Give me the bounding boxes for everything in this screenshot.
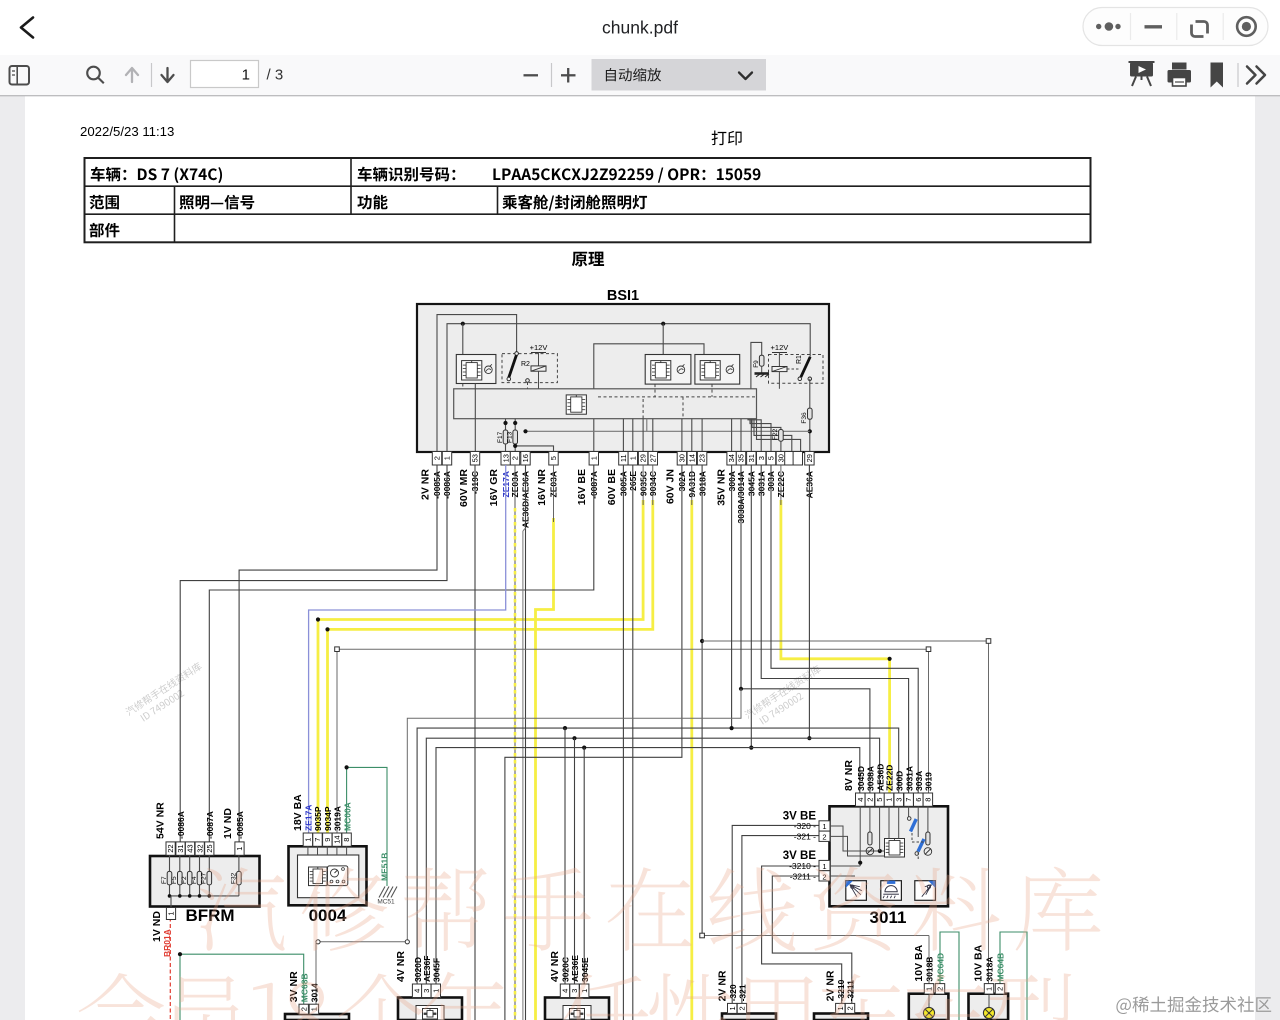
0004 title <box>309 906 347 925</box>
ic U2 <box>566 395 586 414</box>
svg-text:43: 43 <box>186 844 195 852</box>
3011 wiring <box>830 806 928 876</box>
BSI1 pin 1 <box>589 452 598 466</box>
bus right fan <box>748 419 801 452</box>
3011 pin 6 <box>914 793 924 806</box>
svg-text:2V NR: 2V NR <box>420 469 432 500</box>
net label 9035C <box>638 471 648 496</box>
svg-text:3018B: 3018B <box>925 957 935 982</box>
BFRM pin 43 <box>185 842 194 855</box>
connector 3V NR 3014 <box>285 1014 349 1020</box>
wire -3211 <box>772 876 852 1003</box>
wire MC64B green <box>1000 932 1027 1020</box>
bus-to-pin wires <box>475 384 751 452</box>
label -0085A <box>235 811 245 839</box>
connector 0004 <box>289 846 367 905</box>
BSI1 pin 14 <box>687 452 696 466</box>
wire 3045 run <box>436 465 860 984</box>
wire ZE03A core <box>514 465 516 1020</box>
svg-text:2022/5/23 11:13: 2022/5/23 11:13 <box>80 124 174 139</box>
BSI1 pin 29 <box>638 452 647 466</box>
watermark diagonal <box>124 661 209 727</box>
chassis ground in BSI <box>755 374 770 378</box>
label 300D <box>894 771 904 791</box>
svg-text:23: 23 <box>698 454 707 462</box>
fuse F27 <box>201 855 212 896</box>
svg-text:2V NR: 2V NR <box>825 970 837 1001</box>
label 3V NR <box>288 971 300 1002</box>
fuse F2 <box>181 855 192 896</box>
net label 300A <box>727 471 737 491</box>
svg-text:16V NR: 16V NR <box>536 469 548 506</box>
BSI1 pin nc <box>785 452 794 466</box>
label ZE22D <box>885 765 895 791</box>
svg-text:1: 1 <box>242 67 250 84</box>
svg-text:F4: F4 <box>191 876 198 884</box>
connector 10V BA b <box>969 994 1009 1020</box>
svg-text:18V BA: 18V BA <box>292 794 304 831</box>
BSI1 pin 3 <box>757 452 766 466</box>
0004 pin 14 <box>332 833 341 855</box>
connector 2V NR a <box>722 1014 776 1020</box>
svg-text:14: 14 <box>333 835 342 843</box>
BFRM title <box>185 906 234 925</box>
原理 title <box>572 252 604 267</box>
connector 4V NR b <box>545 998 609 1020</box>
BSI connector group labels <box>420 469 728 507</box>
net label 3018A <box>697 471 707 496</box>
svg-text:2: 2 <box>738 1006 747 1010</box>
BSI1 pin 1 <box>628 452 637 466</box>
wire AE36 internal <box>523 419 809 434</box>
wire BSI top bus to R1 <box>447 322 810 452</box>
3011 left pin 2 <box>794 831 830 841</box>
svg-text:MC51: MC51 <box>377 899 395 906</box>
fuse F13 <box>503 419 517 452</box>
net label ZE22C <box>776 471 786 497</box>
label 10V BA <box>973 944 985 981</box>
0004 pin 1 <box>303 833 312 855</box>
BSI1 pin 16 <box>521 452 530 466</box>
3011 pin 1 <box>884 793 894 806</box>
svg-text:F17: F17 <box>497 431 504 443</box>
label -321 <box>738 984 748 1001</box>
wire -0086A <box>180 465 447 842</box>
net label AE36D/AE36A <box>521 471 531 528</box>
svg-text:AE36E: AE36E <box>570 955 580 982</box>
net label AE36A <box>805 471 815 498</box>
svg-text:60V JN: 60V JN <box>665 469 677 504</box>
svg-text:35: 35 <box>737 454 746 462</box>
打印 <box>85 158 1091 242</box>
10V BA b pin 1 <box>984 984 993 995</box>
op-amp U4 <box>695 355 740 385</box>
BSI1 pin 5 <box>549 452 558 466</box>
svg-text:chunk.pdf: chunk.pdf <box>602 18 678 38</box>
svg-text:3019A: 3019A <box>333 806 343 831</box>
svg-text:F27: F27 <box>201 872 208 884</box>
BSI1 pin 30 <box>677 452 686 466</box>
label 3018B <box>925 957 935 982</box>
svg-text:16V BE: 16V BE <box>576 469 588 505</box>
BSI1 pin 23 <box>697 452 706 466</box>
svg-text:22: 22 <box>166 844 175 852</box>
10V BA a pin 1 <box>924 984 933 995</box>
svg-text:31: 31 <box>176 844 185 852</box>
BFRM pin 25 <box>205 842 214 855</box>
2V NR b pin 2 <box>845 1003 854 1013</box>
svg-text:2: 2 <box>822 832 826 841</box>
svg-text:30: 30 <box>678 454 687 462</box>
svg-text:-3211 -: -3211 - <box>790 871 816 881</box>
wire MC68B green <box>178 952 304 1020</box>
4V NR a pin 4 <box>412 984 421 998</box>
ic 0004 <box>309 867 328 886</box>
resistor 3011 a <box>866 832 874 855</box>
4V NR b ic <box>570 1009 585 1020</box>
+12V supply R2 <box>530 343 548 389</box>
fuse F5 <box>171 855 182 896</box>
svg-text:3019: 3019 <box>924 772 934 791</box>
svg-text:16V GR: 16V GR <box>488 469 500 507</box>
watermark row2 <box>79 972 1073 1020</box>
table row3 <box>90 223 120 238</box>
svg-text:3045F: 3045F <box>432 958 442 982</box>
wire 303A <box>771 465 918 793</box>
net label 3045A <box>747 471 757 496</box>
svg-text:34: 34 <box>727 454 736 462</box>
svg-text:14: 14 <box>687 454 696 462</box>
svg-text:1: 1 <box>628 456 637 460</box>
label 3031A <box>904 766 914 791</box>
label 2V NR <box>717 970 729 1001</box>
lamp 10V BA a <box>923 994 934 1020</box>
connector 2V NR b <box>814 1014 868 1020</box>
BFRM pin 32 <box>195 842 204 855</box>
4V NR b pin 4 <box>560 984 569 998</box>
svg-text:16: 16 <box>521 454 530 462</box>
net label -319C <box>470 471 480 494</box>
3011 pin 4 <box>856 793 866 806</box>
svg-text:1: 1 <box>985 987 994 991</box>
4V NR b pin 1 <box>580 984 589 998</box>
label 10V BA <box>913 944 925 981</box>
label 3045E <box>580 957 590 982</box>
svg-text:3: 3 <box>757 456 766 460</box>
BSI1 pin 5 <box>766 452 775 466</box>
wire 3031A <box>761 465 908 793</box>
wire MC00A/ME51B green <box>345 765 388 886</box>
label AE36F <box>422 956 432 982</box>
wire 9035P core <box>316 465 643 622</box>
svg-text:-321 -: -321 - <box>794 831 816 841</box>
svg-text:3011: 3011 <box>870 908 907 927</box>
label 9035P <box>313 806 323 831</box>
svg-text:1: 1 <box>167 911 176 915</box>
BSI1 pin 2 <box>432 452 441 466</box>
zoom select label 自动缩放 <box>606 68 661 81</box>
wire -320 <box>732 825 830 1003</box>
label BR01A <box>162 929 172 957</box>
wire ZE03A dotted highlight <box>514 508 517 1020</box>
wire 3014 link <box>316 940 410 1005</box>
svg-text:MC00A: MC00A <box>342 802 352 831</box>
0004 pin 8 <box>342 833 351 855</box>
wire 3019A link <box>335 647 931 833</box>
svg-text:-0087A: -0087A <box>205 811 215 839</box>
label 3V BE lower <box>783 850 817 862</box>
svg-text:3: 3 <box>570 989 579 993</box>
svg-text:R1: R1 <box>796 355 803 364</box>
4V NR a pin 3 <box>422 984 431 998</box>
lamp icon left <box>846 881 867 901</box>
label MC00A <box>342 802 352 831</box>
BSI1 pin 27 <box>648 452 657 466</box>
svg-text:31: 31 <box>747 454 756 462</box>
svg-text:F5: F5 <box>171 876 178 884</box>
svg-text:4V NR: 4V NR <box>395 951 407 982</box>
svg-text:3045D: 3045D <box>856 766 866 791</box>
svg-text:7: 7 <box>904 798 913 802</box>
dashed link R2 <box>463 382 528 419</box>
relay R1 <box>769 343 824 389</box>
switch 3011 s1 blue <box>907 817 916 842</box>
label 4V NR <box>395 951 407 982</box>
net label 9A31D <box>687 471 697 497</box>
fuse F4 <box>191 855 202 896</box>
svg-text:MC68B: MC68B <box>299 973 309 1002</box>
net label 303A <box>766 471 776 491</box>
gauge module 0004 <box>328 866 348 886</box>
wire 9035C/9035P highlight <box>318 500 643 833</box>
svg-text:-0085A: -0085A <box>235 811 245 839</box>
svg-text:2: 2 <box>433 456 442 460</box>
table row2 <box>90 195 647 211</box>
label 3018A <box>985 957 995 982</box>
wire 3005A <box>622 465 624 1020</box>
BSI1 pin 29 <box>805 452 814 466</box>
BFRM pin 22 <box>166 842 175 855</box>
wire ZE03A internal <box>513 444 553 452</box>
svg-text:3031A: 3031A <box>904 766 914 791</box>
net label 9034C <box>648 471 658 496</box>
3011 left pin 2b <box>790 871 830 882</box>
svg-text:3018A: 3018A <box>985 957 995 982</box>
label 1V ND top <box>222 808 234 839</box>
BSI1 pin 13 <box>501 452 510 466</box>
fuse F36 <box>801 379 812 452</box>
wire 3018A branch right <box>702 639 991 984</box>
svg-text:303A: 303A <box>914 771 924 791</box>
svg-text:60V BE: 60V BE <box>606 469 618 505</box>
wire ZE03A 16VNR highlight <box>536 518 554 1020</box>
BSI1 pin 2 <box>510 452 519 466</box>
svg-text:1: 1 <box>728 1006 737 1010</box>
label -320 <box>728 984 738 1001</box>
connector BFRM <box>150 856 260 907</box>
label ME51B <box>380 853 390 881</box>
svg-text:3: 3 <box>894 798 903 802</box>
fuse F9 <box>751 342 764 388</box>
connector 10V BA a <box>909 994 949 1020</box>
svg-text:2: 2 <box>866 798 875 802</box>
svg-text:3020C: 3020C <box>561 957 571 982</box>
net label -0086A <box>442 471 452 499</box>
wire -319C <box>474 465 476 1020</box>
svg-text:1: 1 <box>822 822 826 831</box>
svg-text:1V ND: 1V ND <box>222 808 234 839</box>
wire BSI top-left to R2 <box>437 315 517 452</box>
svg-text:F13: F13 <box>507 431 514 443</box>
svg-text:ZE17A: ZE17A <box>304 805 314 831</box>
svg-text:-0086A: -0086A <box>176 811 186 839</box>
svg-text:1: 1 <box>443 456 452 460</box>
2V NR b pin 1 <box>836 1003 845 1013</box>
svg-text:-3210 -: -3210 - <box>789 861 816 871</box>
label 54V NR <box>155 802 167 839</box>
2V NR a pin 2 <box>737 1003 746 1013</box>
svg-text:9035P: 9035P <box>313 806 323 831</box>
BSI1 title <box>607 288 639 304</box>
4V NR b inner module <box>563 1006 591 1020</box>
svg-text:3038A: 3038A <box>866 766 876 791</box>
svg-text:F36: F36 <box>801 412 808 424</box>
3011 pin 8 <box>923 793 933 806</box>
svg-text:11: 11 <box>619 454 628 462</box>
BSI1 pin nc <box>793 452 802 466</box>
svg-text:4: 4 <box>856 798 865 802</box>
svg-text:1: 1 <box>589 456 598 460</box>
label 3V BE upper <box>783 811 817 823</box>
svg-text:R2: R2 <box>521 361 530 368</box>
net label -0085A <box>432 471 442 499</box>
label 18V BA <box>292 794 304 831</box>
3V NR 3014 pin 2 <box>299 1004 308 1014</box>
wire 265E <box>632 465 634 1020</box>
svg-text:MC64B: MC64B <box>996 953 1006 982</box>
svg-text:3: 3 <box>422 989 431 993</box>
3011 title <box>870 908 907 927</box>
watermark row1 <box>199 866 1100 951</box>
wire 3018A <box>700 465 704 936</box>
wire U1 feed <box>462 324 464 355</box>
net label ZE17A <box>501 471 511 497</box>
BSI1 pin 34 <box>727 452 736 466</box>
label 3020C <box>561 957 571 982</box>
svg-text:32: 32 <box>195 844 204 852</box>
3011 pin 3 <box>894 793 904 806</box>
svg-text:4V NR: 4V NR <box>549 951 561 982</box>
2V NR a pin 1 <box>728 1003 737 1013</box>
ground MC51 <box>377 887 397 906</box>
svg-text:1: 1 <box>822 862 826 871</box>
label AE36D <box>875 764 885 791</box>
label 3019 <box>924 772 934 791</box>
svg-text:10V BA: 10V BA <box>913 944 925 981</box>
wire ZE22C/ZE22D highlight <box>781 500 890 793</box>
svg-text:9034P: 9034P <box>323 806 333 831</box>
net label 3038A/3014A <box>736 471 746 523</box>
svg-text:-321: -321 <box>738 984 748 1001</box>
fuse F17 <box>497 419 508 452</box>
svg-text:AE36F: AE36F <box>422 956 432 982</box>
svg-text:F7: F7 <box>161 876 168 884</box>
BFRM pin 31 <box>176 842 185 855</box>
BSI1 pin 53 <box>470 452 479 466</box>
BSI1 pin 35 <box>736 452 745 466</box>
svg-text:25: 25 <box>205 844 214 852</box>
10V BA a pin 2 <box>935 984 944 995</box>
svg-text:BSI1: BSI1 <box>607 288 639 304</box>
label 3019A <box>333 806 343 831</box>
fuse F7 <box>161 855 172 896</box>
label 4V NR <box>549 951 561 982</box>
4V NR a pin 1 <box>431 984 440 998</box>
wire -3210 <box>762 866 842 1003</box>
label -0087A <box>205 811 215 839</box>
svg-text:30: 30 <box>777 454 786 462</box>
svg-text:300D: 300D <box>894 771 904 791</box>
svg-text:53: 53 <box>471 454 480 462</box>
3011 pin 7 <box>904 793 914 806</box>
svg-text:4: 4 <box>413 989 422 993</box>
label MC64D <box>936 953 946 982</box>
watermark diagonal <box>743 664 828 730</box>
3011 ic <box>885 839 905 858</box>
resistor 3011 b <box>924 832 932 855</box>
lamp icon right <box>915 881 936 901</box>
svg-text:13: 13 <box>501 454 510 462</box>
wire BR01A red dashed <box>169 918 171 1020</box>
net label -0087A <box>589 471 599 499</box>
BFRM bus <box>168 894 239 907</box>
svg-text:9: 9 <box>323 838 332 842</box>
wire 3038A <box>739 465 870 793</box>
4V NR b pin 3 <box>570 984 579 998</box>
wire to U4 <box>594 344 704 452</box>
net label ZE03A <box>510 471 520 497</box>
wire 9A31D core <box>691 465 693 505</box>
label 8V NR <box>843 760 855 791</box>
BSI1 box <box>417 304 829 452</box>
wire -321 <box>742 836 830 1004</box>
label 3014 <box>310 983 320 1002</box>
fuse F32 <box>230 855 241 896</box>
3011 pin 5 <box>875 793 885 806</box>
BSI1 pin 1 <box>442 452 451 466</box>
svg-text:5: 5 <box>549 456 558 460</box>
label MC64B <box>996 953 1006 982</box>
net label 265E <box>628 471 638 491</box>
lamp icon center <box>881 881 902 901</box>
4V NR a inner module <box>416 1006 444 1020</box>
wire ZE17A blue <box>309 465 506 833</box>
3V NR 3014 pin 1 <box>309 1004 318 1014</box>
svg-text:6: 6 <box>914 798 923 802</box>
label ZE17A <box>304 805 314 831</box>
BSI1 pin 31 <box>747 452 756 466</box>
label MC68B <box>299 973 309 1002</box>
bus module <box>454 389 757 419</box>
label -0086A <box>176 811 186 839</box>
net label 3031A <box>756 471 766 496</box>
net label 302A <box>677 471 687 491</box>
label -3210 <box>836 979 846 1001</box>
BFRM pin 1 <box>235 842 244 855</box>
3011 left pin 1 <box>794 821 830 831</box>
op-amp U3 <box>645 355 691 385</box>
wire AE36 run <box>426 465 879 984</box>
